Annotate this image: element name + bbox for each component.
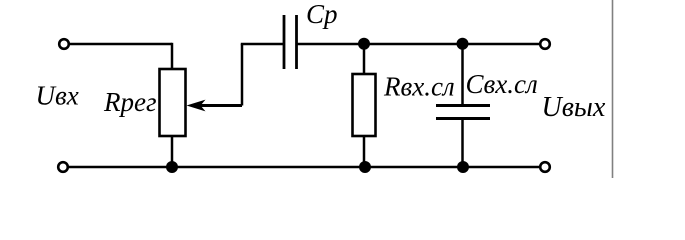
wire Cp to output terminal <box>297 43 540 46</box>
output terminal bottom (open circle) <box>540 162 550 172</box>
wire potentiometer bottom to bottom rail <box>171 136 174 167</box>
wire top-left horizontal <box>70 43 173 46</box>
svg-text:Rвх.сл: Rвх.сл <box>383 72 455 102</box>
svg-text:Ср: Ср <box>306 0 338 29</box>
resistor Rрег (potentiometer body) <box>160 69 186 136</box>
node junction bottom of Cвх.сл <box>457 161 469 173</box>
wire down to potentiometer top <box>171 43 174 69</box>
svg-text:Uвых: Uвых <box>542 92 606 123</box>
wire wiper vertical up <box>241 44 244 106</box>
node junction bottom of Rрег <box>166 161 178 173</box>
input terminal bottom (open circle) <box>58 162 68 172</box>
capacitor Cp right plate <box>295 15 298 69</box>
node junction at Cвх.сл top <box>457 38 469 50</box>
wire junction down to Rвх.сл <box>363 44 366 74</box>
wire Rвх.сл bottom to bottom rail <box>363 136 366 167</box>
node junction at Rвх.сл top <box>358 38 370 50</box>
capacitor Cвх.сл bottom plate <box>436 117 490 120</box>
svg-text:Rрег: Rрег <box>103 87 157 117</box>
svg-text:Свх.сл: Свх.сл <box>466 69 538 99</box>
wire Cвх.сл bottom to bottom rail <box>461 119 464 168</box>
node junction bottom of Rвх.сл <box>359 161 371 173</box>
resistor Rвх.сл <box>353 74 376 136</box>
wire junction down to Cвх.сл <box>461 44 464 106</box>
wiper arrow of Rрег <box>187 100 243 112</box>
bottom rail wire <box>69 166 540 169</box>
svg-text:Uвх: Uвх <box>36 81 79 111</box>
capacitor Cвх.сл top plate <box>436 104 490 107</box>
wire wiper to capacitor Cp <box>241 43 284 46</box>
input terminal top (open circle) <box>59 39 69 49</box>
capacitor Cp left plate <box>283 15 286 69</box>
page rule (table border at right) <box>612 0 614 178</box>
output terminal top (open circle) <box>540 39 550 49</box>
